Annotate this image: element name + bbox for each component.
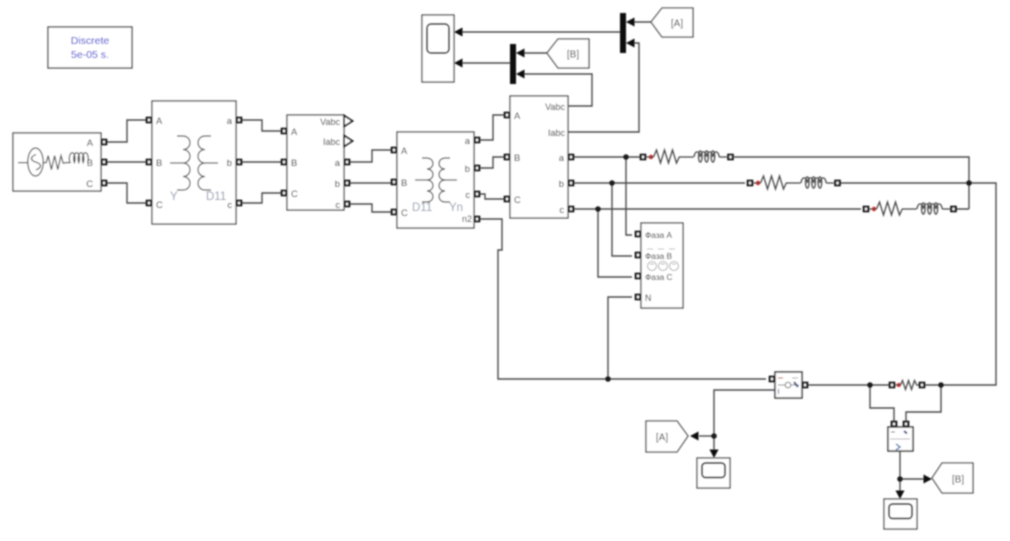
svg-text:A: A	[291, 126, 298, 137]
svg-text:A: A	[87, 137, 94, 148]
svg-text:b: b	[227, 157, 232, 168]
svg-text:Фаза A: Фаза A	[645, 230, 673, 240]
svg-text:Vabc: Vabc	[320, 117, 340, 127]
svg-text:[A]: [A]	[656, 433, 668, 444]
svg-text:a: a	[559, 152, 565, 163]
svg-text:D11: D11	[206, 191, 226, 203]
svg-text:A: A	[401, 145, 408, 156]
svg-text:B: B	[87, 157, 93, 168]
svg-text:c: c	[465, 189, 470, 200]
svg-text:b: b	[559, 178, 564, 189]
svg-text:N: N	[645, 293, 651, 303]
svg-text:B: B	[514, 152, 520, 163]
svg-text:c: c	[227, 199, 232, 210]
svg-text:C: C	[156, 199, 163, 210]
svg-text:Vabc: Vabc	[545, 102, 565, 112]
svg-text:Iabc: Iabc	[323, 137, 341, 147]
svg-text:5e-05 s.: 5e-05 s.	[71, 49, 109, 61]
svg-text:C: C	[86, 178, 93, 189]
svg-text:B: B	[401, 177, 407, 188]
svg-text:b: b	[335, 178, 340, 189]
svg-text:B: B	[156, 157, 162, 168]
svg-text:Фаза B: Фаза B	[645, 251, 673, 261]
svg-text:a: a	[335, 157, 341, 168]
svg-text:c: c	[559, 204, 564, 215]
svg-text:B: B	[291, 157, 297, 168]
svg-text:b: b	[465, 163, 470, 174]
svg-text:Iabc: Iabc	[548, 128, 566, 138]
svg-text:Yn: Yn	[449, 202, 463, 214]
svg-text:[A]: [A]	[671, 19, 683, 30]
svg-text:[B]: [B]	[952, 475, 964, 486]
svg-text:D11: D11	[412, 202, 432, 214]
svg-text:a: a	[465, 135, 471, 146]
svg-text:C: C	[401, 207, 408, 218]
svg-text:c: c	[335, 199, 340, 210]
svg-text:C: C	[514, 194, 521, 205]
svg-text:A: A	[156, 115, 163, 126]
svg-text:C: C	[291, 188, 298, 199]
svg-text:Фаза C: Фаза C	[645, 272, 673, 282]
svg-text:[B]: [B]	[567, 50, 579, 61]
svg-text:n2: n2	[462, 214, 472, 224]
svg-text:a: a	[227, 115, 233, 126]
svg-text:Discrete: Discrete	[71, 35, 110, 47]
svg-text:A: A	[514, 110, 521, 121]
svg-text:Y: Y	[170, 191, 178, 203]
